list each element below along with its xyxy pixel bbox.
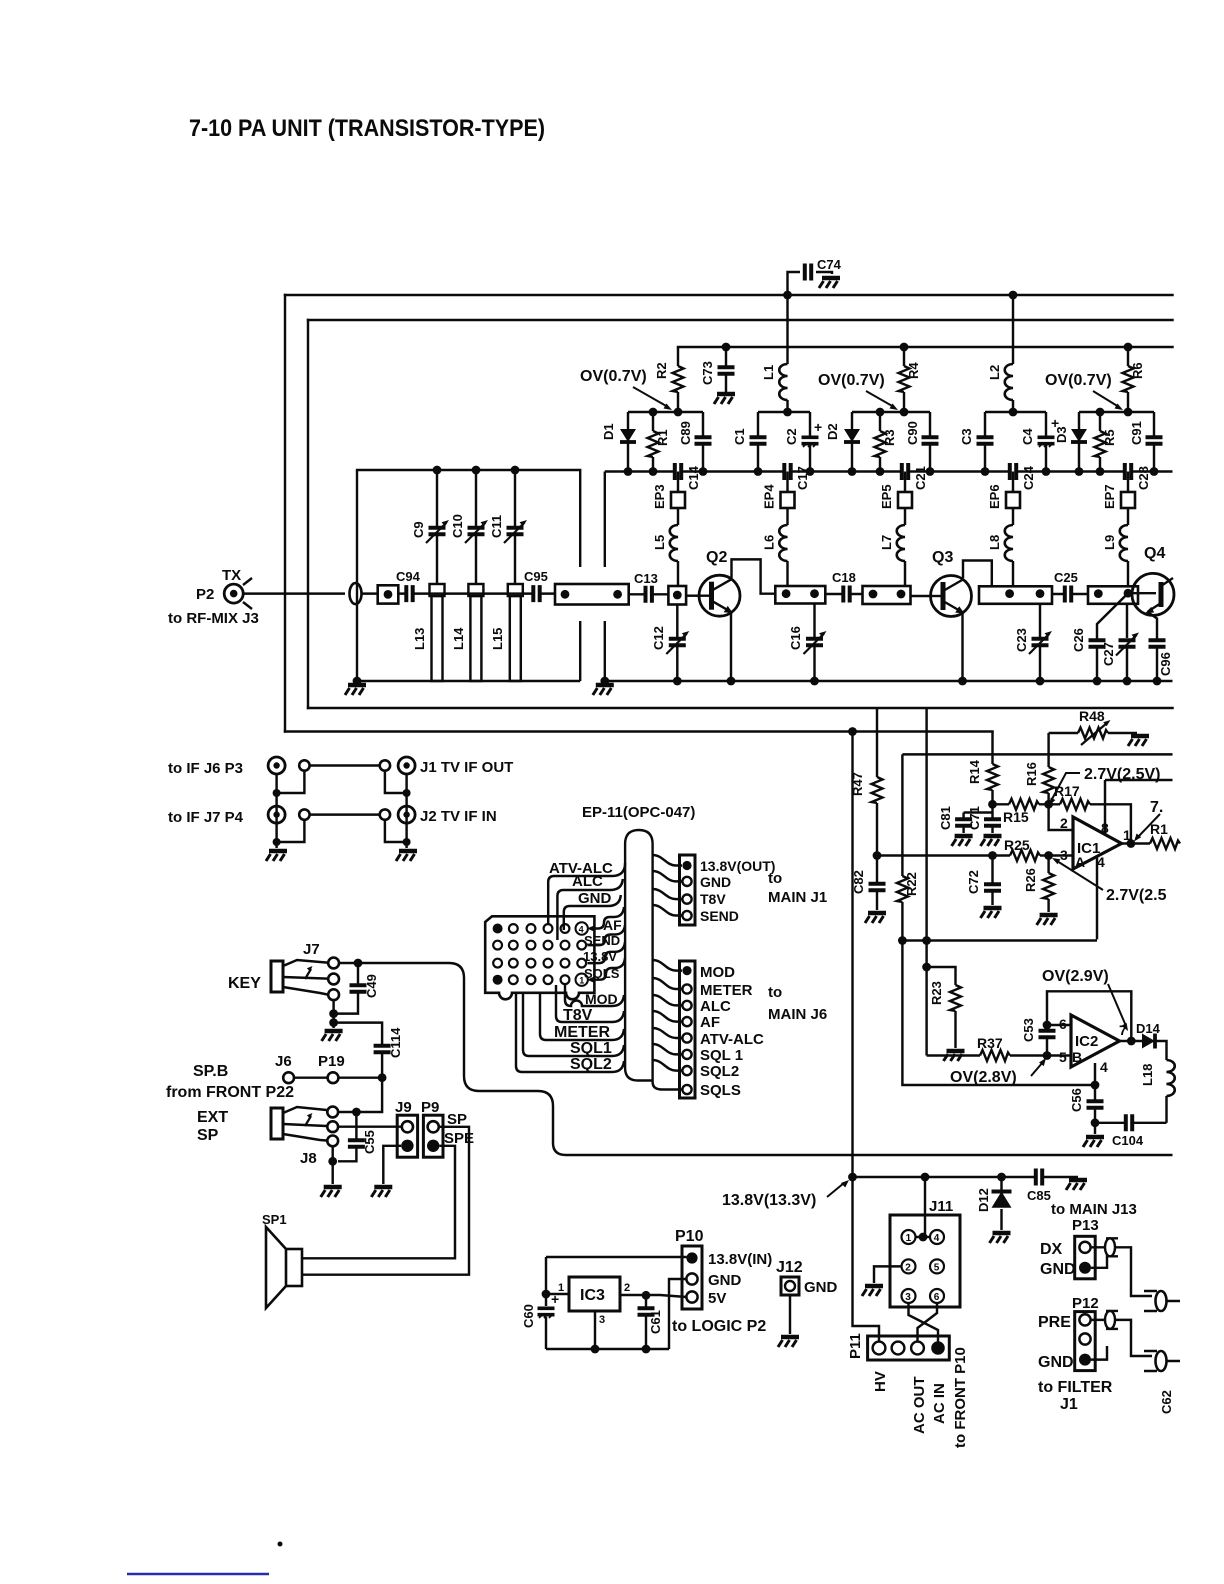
shielded line segment [555,584,629,605]
svg-text:MOD: MOD [700,964,735,981]
svg-text:5: 5 [1059,1049,1067,1065]
svg-text:EP7: EP7 [1102,484,1117,509]
wire into shield clamp [362,592,378,594]
connector J1 TV IF OUT [380,757,514,776]
svg-text:SQL2: SQL2 [700,1063,739,1080]
svg-text:C114: C114 [388,1027,403,1058]
resistor R18 [1150,821,1180,849]
svg-text:C94: C94 [396,569,421,584]
svg-text:R1: R1 [1150,821,1168,837]
svg-text:SQLS: SQLS [584,966,620,981]
wire P9 SP [302,1127,469,1275]
inductor L6 [762,525,788,586]
svg-text:AF: AF [700,1014,720,1031]
capacitor C24 [1010,463,1036,491]
node R14 bottom [988,800,997,809]
capacitor C73 [700,343,735,392]
wire 13.8V distribution [853,1176,1079,1178]
svg-text:C26: C26 [1071,628,1086,652]
svg-text:R17: R17 [1054,783,1080,799]
connector P4 [168,806,310,826]
svg-text:2: 2 [1060,815,1068,831]
svg-text:J2 TV IF IN: J2 TV IF IN [420,808,497,825]
svg-text:to LOGIC P2: to LOGIC P2 [672,1318,766,1335]
ground J12 [778,1337,799,1347]
connector pair PRE [1105,1311,1118,1329]
svg-text:5: 5 [934,1262,940,1273]
svg-text:L13: L13 [412,628,427,650]
box1 top bus junctions [433,466,520,475]
wire tab ATV-ALC [548,860,625,924]
svg-text:13.8V(IN): 13.8V(IN) [708,1251,772,1268]
svg-text:L18: L18 [1140,1064,1155,1086]
svg-text:8: 8 [1101,820,1109,836]
perfboard marked holes [493,924,503,934]
svg-text:C14: C14 [686,465,701,490]
svg-text:R22: R22 [904,872,919,896]
connector P3 [168,757,310,777]
wire to C13 [629,593,669,595]
wire tab AF [587,907,624,933]
svg-text:OV(0.7V): OV(0.7V) [580,368,647,385]
svg-text:B: B [1072,1049,1082,1065]
ground J8 [321,1187,342,1197]
node IC2 output [1127,1037,1136,1046]
capacitor C95 [524,569,548,603]
svg-text:GND: GND [700,874,731,890]
connector J2 TV IF IN [380,806,497,825]
resistor R26 [1023,856,1054,913]
transistor Q4 [1128,545,1174,615]
svg-text:J8: J8 [300,1150,317,1167]
wire P13 GND [1091,1254,1107,1268]
ground rail junctions [673,677,1162,686]
svg-text:R2: R2 [654,362,669,379]
svg-text:GND: GND [804,1279,838,1296]
svg-text:R6: R6 [1130,362,1145,379]
wire P10 GND return [669,1279,687,1349]
svg-text:P2: P2 [196,586,214,603]
svg-text:SQL 1: SQL 1 [700,1047,743,1064]
inductor L5 [652,525,678,586]
svg-text:P13: P13 [1072,1217,1099,1234]
base box 4 [979,586,1052,604]
capacitor C81 [938,806,993,833]
svg-text:SEND: SEND [700,908,739,924]
wire inner box left [307,320,309,708]
svg-text:SP.B: SP.B [193,1063,228,1080]
svg-text:R4: R4 [906,362,921,379]
svg-text:L2: L2 [987,365,1002,380]
capacitor C94 [396,569,555,603]
svg-text:R37: R37 [977,1035,1003,1051]
svg-text:J9: J9 [395,1099,412,1116]
wire C114 down to J8 [356,1078,382,1112]
connector J9 [395,1099,418,1157]
wire IC2 feedback [1047,991,1131,1041]
node top bus junction L1 [783,291,792,300]
label 0V(0.7V) stage C [818,372,898,410]
shield box1 outline [357,470,580,681]
svg-text:L9: L9 [1102,535,1117,550]
svg-text:Q3: Q3 [932,549,953,566]
capacitor C3 [959,412,994,472]
wires trunk to J6 [653,960,682,1090]
svg-text:from FRONT P22: from FRONT P22 [166,1084,294,1101]
svg-text:DX: DX [1040,1241,1063,1258]
svg-text:2: 2 [905,1262,911,1273]
svg-text:J12: J12 [776,1259,803,1276]
svg-text:L14: L14 [451,627,466,650]
ground J1 J2 right [396,851,417,861]
inductor L8 [987,525,1013,586]
svg-text:to FRONT P10: to FRONT P10 [952,1347,969,1448]
svg-text:AC IN: AC IN [931,1383,948,1424]
wire Q3 collector step [963,561,992,587]
svg-text:L15: L15 [490,628,505,650]
svg-text:C62: C62 [1159,1390,1174,1414]
svg-text:6: 6 [934,1292,940,1303]
svg-text:C104: C104 [1112,1133,1144,1148]
ground R26 [1037,915,1058,925]
capacitor C53 [1021,1018,1056,1055]
label 0V(2.8V) callout [950,1058,1046,1086]
svg-text:R15: R15 [1003,809,1029,825]
wire IC1 bottom line [902,939,1097,941]
wire pin8 supply [1105,780,1173,834]
label 2.7V(2.5V) [1049,766,1160,806]
svg-text:7-10 PA UNIT (TRANSISTOR-TYPE: 7-10 PA UNIT (TRANSISTOR-TYPE) [189,115,545,142]
svg-text:13.8V(OUT): 13.8V(OUT) [700,858,775,874]
capacitor C96 [1148,635,1173,681]
svg-text:C12: C12 [651,626,666,650]
svg-text:P11: P11 [847,1333,864,1359]
svg-text:R1: R1 [655,429,670,446]
inductor L7 [879,525,905,586]
svg-text:C18: C18 [832,570,856,585]
diode D3 [1054,412,1087,472]
capacitor C28 [1125,463,1151,491]
wire tab METER [540,993,624,1041]
shield wall 2 [604,472,606,682]
svg-text:3: 3 [599,1314,605,1326]
diode D12 [976,1177,1012,1230]
svg-text:to: to [768,984,782,1001]
svg-text:OV(2.9V): OV(2.9V) [1042,968,1109,985]
svg-text:J1: J1 [1060,1396,1078,1413]
base box 3 [863,586,911,604]
svg-text:T8V: T8V [700,891,726,907]
wire bias node rail B [758,411,810,413]
wire bias node rail C [852,411,930,413]
node outer box bottom junction [848,727,857,736]
wire ground rail [605,680,1173,682]
svg-text:KEY: KEY [228,975,261,992]
svg-text:J1 TV IF OUT: J1 TV IF OUT [420,759,513,776]
svg-text:GND: GND [578,890,612,907]
svg-text:C21: C21 [913,466,928,490]
svg-text:Q4: Q4 [1144,545,1165,562]
ground C71 [981,836,1002,846]
capacitor C91 [1129,412,1163,472]
wire KEY signal long run [339,963,1173,1155]
svg-text:L8: L8 [987,535,1002,550]
capacitor C82 [851,856,886,911]
svg-text:SEND: SEND [584,933,620,948]
svg-text:SP: SP [447,1111,467,1128]
connector P10 [675,1228,704,1309]
capacitor C56 [1069,1085,1104,1134]
svg-text:HV: HV [872,1371,889,1392]
label 7.5V callout [1134,799,1163,842]
ferrite bead EP5 [879,472,912,526]
wires trunk to J1 [653,855,682,916]
svg-text:7.: 7. [1150,799,1163,816]
capacitor C49 [334,963,379,1014]
base box 2 [775,586,825,604]
wire supply bus [678,346,1173,348]
svg-text:J11: J11 [929,1198,953,1215]
capacitor C4 polarized [1020,412,1059,472]
wire Q3 emitter [961,614,963,681]
trimmer C12 [651,605,689,682]
wire IC1 pin4 [1096,857,1098,939]
label 0V(2.9V) callout [1042,968,1128,1031]
connector P2 jack [168,567,259,627]
label 2.7V(2.5 callout [1052,858,1167,904]
wire P19 to C114 node [338,1076,382,1078]
svg-text:MOD: MOD [585,991,618,1007]
svg-text:C9: C9 [411,521,426,538]
svg-text:OV(0.7V): OV(0.7V) [1045,372,1112,389]
resistor R37 [927,1035,1071,1061]
wire tab SQLS [584,958,625,983]
wire IC2 output [1120,1040,1143,1042]
wire bias node rail D [985,411,1046,413]
svg-text:C1: C1 [732,428,747,445]
svg-text:D1: D1 [601,423,616,440]
svg-text:D2: D2 [825,423,840,440]
label 13.8V(13.3V) [722,1180,849,1209]
ground for C73 [714,394,735,404]
svg-text:C13: C13 [634,571,658,586]
wire J8 sleeve [331,1146,333,1184]
svg-text:R23: R23 [929,981,944,1005]
svg-text:R14: R14 [967,759,982,784]
svg-text:SQL1: SQL1 [570,1040,612,1057]
inductor L15 [490,584,523,681]
ground J9 [371,1187,392,1197]
capacitor C60 [521,1257,559,1349]
capacitor C18 [825,570,862,603]
wire Q4 emitter to C96 [1147,612,1157,636]
capacitor C90 [905,412,939,472]
capacitor C72 [966,856,1002,906]
capacitor C114 [334,1023,403,1078]
inductor L2 [987,295,1013,412]
coax jack PRE out [1144,1351,1180,1371]
svg-text:C11: C11 [489,515,504,538]
wire tab SEND [584,925,625,948]
trimmer C10 [450,470,488,584]
wire tab T8V [556,985,624,1024]
trimmer C9 [411,470,449,584]
ferrite bead EP6 [987,472,1020,526]
wire tab ALC [557,873,622,940]
svg-text:EXT: EXT [197,1109,228,1126]
wire vertical 926 [925,708,927,1056]
capacitor C17 [784,463,810,491]
wire IC2 pin4 [1094,1063,1096,1085]
wire tab SQL1 [523,993,624,1057]
diode D14 [1136,1021,1167,1060]
connector P9 [421,1099,443,1157]
svg-text:+: + [814,419,822,435]
resistor R16 [1024,733,1054,804]
trimmer C23 [1014,604,1052,681]
wire P12 GND [1091,1346,1107,1360]
svg-text:C96: C96 [1158,652,1173,676]
svg-text:C73: C73 [700,361,715,385]
node top bus junction L2 [1009,291,1018,300]
capacitor C104 [1095,1114,1167,1148]
node rail A junctions [649,408,658,417]
node IC2 pin6 [1043,1021,1052,1030]
svg-text:C49: C49 [364,974,379,998]
wire J8 tip [338,1111,356,1113]
svg-text:R25: R25 [1004,837,1030,853]
wire DX [1091,1247,1152,1296]
svg-text:R16: R16 [1024,762,1039,786]
perfboard pin 4 [576,922,588,934]
wire P3 to J1 [310,764,380,766]
svg-text:C74: C74 [817,257,842,272]
svg-text:C16: C16 [788,626,803,650]
wire outer box left [284,295,286,732]
svg-text:C3: C3 [959,428,974,445]
node IC1 pin3 [1044,851,1053,860]
resistor R4 [899,343,922,412]
labels P10 pins [672,1251,772,1335]
wire Q2 emitter [730,614,732,682]
inductor L9 [1102,525,1128,586]
wire J1 J2 shield right [385,771,407,848]
svg-text:3: 3 [905,1292,911,1303]
capacitor C25 [1052,570,1088,603]
svg-text:MAIN J6: MAIN J6 [768,1006,827,1023]
svg-text:2.7V(2.5: 2.7V(2.5 [1106,887,1167,904]
svg-text:13.8V(13.3V): 13.8V(13.3V) [722,1192,816,1209]
svg-text:C71: C71 [967,806,982,830]
ground J11 pin2 [862,1286,883,1296]
wire pin3 to IC1 [1049,854,1073,856]
svg-text:C17: C17 [795,466,810,490]
svg-text:C4: C4 [1020,428,1035,445]
svg-text:EP3: EP3 [652,484,667,509]
wire IC1 output [1122,842,1151,844]
wire tab MOD [565,985,624,1007]
wire pin3 line [877,854,1010,856]
coax jack DX out [1144,1291,1180,1311]
svg-text:13.8V: 13.8V [583,949,617,964]
regulator IC3 [546,1277,630,1326]
wire regulator ground rail [546,1348,669,1350]
ground shield box1 [345,677,366,695]
wire PRE [1091,1320,1152,1356]
resistor R25 [1004,837,1049,861]
svg-text:3: 3 [1060,847,1068,863]
capacitor C61 [637,1295,663,1349]
resistor R17 [1049,783,1131,844]
svg-text:2: 2 [624,1282,630,1294]
svg-text:METER: METER [700,982,753,999]
capacitor C2 polarized [784,412,822,472]
resistor R5 [1095,412,1118,472]
scan artifact blue line [127,1573,269,1575]
svg-text:C23: C23 [1014,628,1029,652]
svg-text:C81: C81 [938,806,953,830]
svg-text:C89: C89 [678,421,693,445]
capacitor C74 [788,257,842,295]
inductor L18 [1140,1060,1175,1123]
regulator wire 13.8V in [546,1256,687,1258]
svg-text:L1: L1 [761,365,776,380]
svg-text:C82: C82 [851,870,866,894]
connector pair DX [1105,1238,1118,1256]
resistor R6 [1123,343,1146,412]
wire bias node rail A [628,411,703,413]
svg-text:P10: P10 [675,1228,704,1245]
capacitor C71 [967,804,1002,833]
svg-text:C27: C27 [1101,642,1116,666]
svg-text:TX: TX [222,567,241,584]
ground C72 [981,908,1002,918]
wire R22 return line [902,941,1095,1086]
svg-text:P9: P9 [421,1099,439,1116]
svg-text:L7: L7 [879,535,894,550]
svg-text:J6: J6 [275,1053,292,1070]
ground C82 [865,913,886,923]
trimmer C27 [1101,604,1139,681]
ground C85 [1066,1180,1087,1190]
svg-text:C72: C72 [966,870,981,894]
ferrite bead EP3 [652,472,685,526]
svg-text:SQL2: SQL2 [570,1056,612,1073]
wire J11 pin3 cross [909,1303,939,1342]
node IC2 pin5 [1043,1051,1052,1060]
wire J8 ring to J9 [338,1125,401,1127]
svg-text:MAIN J1: MAIN J1 [768,889,827,906]
wire bus 754 [902,753,1172,755]
svg-text:ATV-ALC: ATV-ALC [700,1031,764,1048]
svg-text:P12: P12 [1072,1295,1099,1312]
wire J11 pin6 cross [918,1303,938,1342]
wire J11 pin2 ground [874,1266,902,1283]
capacitor C21 [902,463,928,491]
diode D1 [601,412,636,472]
transistor Q3 [911,549,972,617]
wire Q2 collector step [732,559,776,593]
ground R48 [1128,736,1149,746]
capacitor C55 [338,1112,377,1161]
resistor R48 variable [1049,708,1137,745]
resistor R15 [993,799,1049,825]
wire inner box top [308,319,1173,321]
capacitor C26 [1071,628,1106,681]
wire J6 to P19 [294,1076,328,1078]
svg-text:C95: C95 [524,569,548,584]
jack J7 KEY [228,941,339,1000]
